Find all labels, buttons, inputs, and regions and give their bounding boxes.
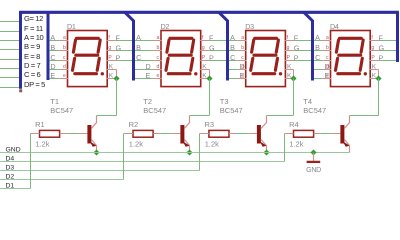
svg-text:e: e: [63, 73, 66, 79]
svg-text:A: A: [136, 33, 141, 42]
svg-text:g: g: [202, 45, 205, 51]
svg-text:a: a: [157, 35, 160, 41]
svg-text:P: P: [209, 54, 214, 63]
svg-text:D1: D1: [6, 183, 15, 190]
svg-text:1.2k: 1.2k: [205, 140, 219, 149]
svg-text:R4: R4: [289, 120, 299, 129]
svg-text:G= 12: G= 12: [24, 14, 43, 23]
svg-text:GND: GND: [306, 167, 321, 174]
svg-text:P: P: [116, 54, 121, 63]
svg-text:B = 9: B = 9: [24, 42, 40, 51]
svg-text:b: b: [157, 45, 160, 51]
svg-text:E: E: [240, 71, 245, 80]
svg-text:T1: T1: [50, 97, 59, 106]
svg-text:K: K: [109, 73, 114, 80]
svg-text:B: B: [230, 43, 235, 52]
svg-text:F: F: [379, 34, 384, 43]
svg-text:e: e: [157, 73, 160, 79]
svg-text:F = 11: F = 11: [24, 24, 43, 33]
svg-text:1.2k: 1.2k: [35, 140, 49, 149]
svg-text:G: G: [209, 44, 215, 53]
svg-text:D: D: [325, 62, 330, 71]
svg-text:R3: R3: [205, 120, 215, 129]
svg-text:A: A: [230, 33, 235, 42]
svg-text:C: C: [136, 53, 141, 62]
svg-text:B: B: [136, 43, 141, 52]
svg-text:D3: D3: [6, 165, 15, 172]
svg-text:b: b: [63, 45, 66, 51]
svg-text:BC547: BC547: [50, 106, 73, 115]
svg-text:P: P: [379, 54, 384, 63]
svg-text:D: D: [50, 62, 55, 71]
svg-text:F: F: [116, 34, 121, 43]
svg-text:C: C: [230, 53, 235, 62]
svg-text:T4: T4: [303, 97, 312, 106]
svg-text:b: b: [326, 45, 329, 51]
svg-text:a: a: [326, 35, 329, 41]
svg-text:D1: D1: [67, 22, 76, 31]
svg-text:D4: D4: [330, 22, 339, 31]
svg-text:R1: R1: [35, 120, 45, 129]
svg-text:d: d: [157, 64, 160, 70]
svg-text:K: K: [202, 64, 207, 71]
svg-text:F: F: [294, 34, 299, 43]
svg-text:F: F: [209, 34, 214, 43]
svg-text:D2: D2: [6, 174, 15, 181]
svg-text:b: b: [241, 45, 244, 51]
svg-text:E = 8: E = 8: [24, 52, 40, 61]
svg-text:A = 10: A = 10: [24, 33, 44, 42]
svg-text:G: G: [294, 44, 300, 53]
svg-text:B: B: [50, 43, 55, 52]
svg-text:D4: D4: [6, 156, 15, 163]
svg-text:P: P: [294, 54, 299, 63]
svg-text:C: C: [50, 53, 55, 62]
svg-text:E: E: [325, 71, 330, 80]
svg-text:E: E: [146, 71, 151, 80]
svg-text:A: A: [50, 33, 55, 42]
svg-text:D: D: [240, 62, 245, 71]
svg-text:T2: T2: [143, 97, 152, 106]
svg-text:BC547: BC547: [143, 106, 166, 115]
svg-text:A: A: [315, 33, 320, 42]
svg-text:G: G: [116, 44, 122, 53]
svg-text:E: E: [50, 71, 55, 80]
svg-text:D2: D2: [161, 22, 170, 31]
svg-text:1.2k: 1.2k: [129, 140, 143, 149]
svg-text:GND: GND: [6, 147, 21, 154]
svg-text:K: K: [372, 64, 377, 71]
svg-text:a: a: [63, 35, 66, 41]
svg-text:a: a: [241, 35, 244, 41]
svg-text:C = 6: C = 6: [24, 70, 41, 79]
svg-text:g: g: [371, 45, 374, 51]
svg-text:g: g: [287, 45, 290, 51]
svg-text:1.2k: 1.2k: [289, 140, 303, 149]
svg-text:K: K: [109, 64, 114, 71]
svg-text:D: D: [146, 62, 151, 71]
svg-text:B: B: [315, 43, 320, 52]
svg-text:BC547: BC547: [303, 106, 326, 115]
svg-text:g: g: [108, 45, 111, 51]
svg-text:G: G: [379, 44, 385, 53]
svg-text:T3: T3: [220, 97, 229, 106]
svg-text:R2: R2: [129, 120, 139, 129]
svg-text:d: d: [63, 64, 66, 70]
svg-text:D = 7: D = 7: [24, 61, 41, 70]
svg-text:C: C: [315, 53, 320, 62]
svg-text:BC547: BC547: [220, 106, 243, 115]
svg-text:K: K: [287, 64, 292, 71]
svg-text:DP = 5: DP = 5: [24, 80, 45, 89]
svg-text:D3: D3: [245, 22, 254, 31]
